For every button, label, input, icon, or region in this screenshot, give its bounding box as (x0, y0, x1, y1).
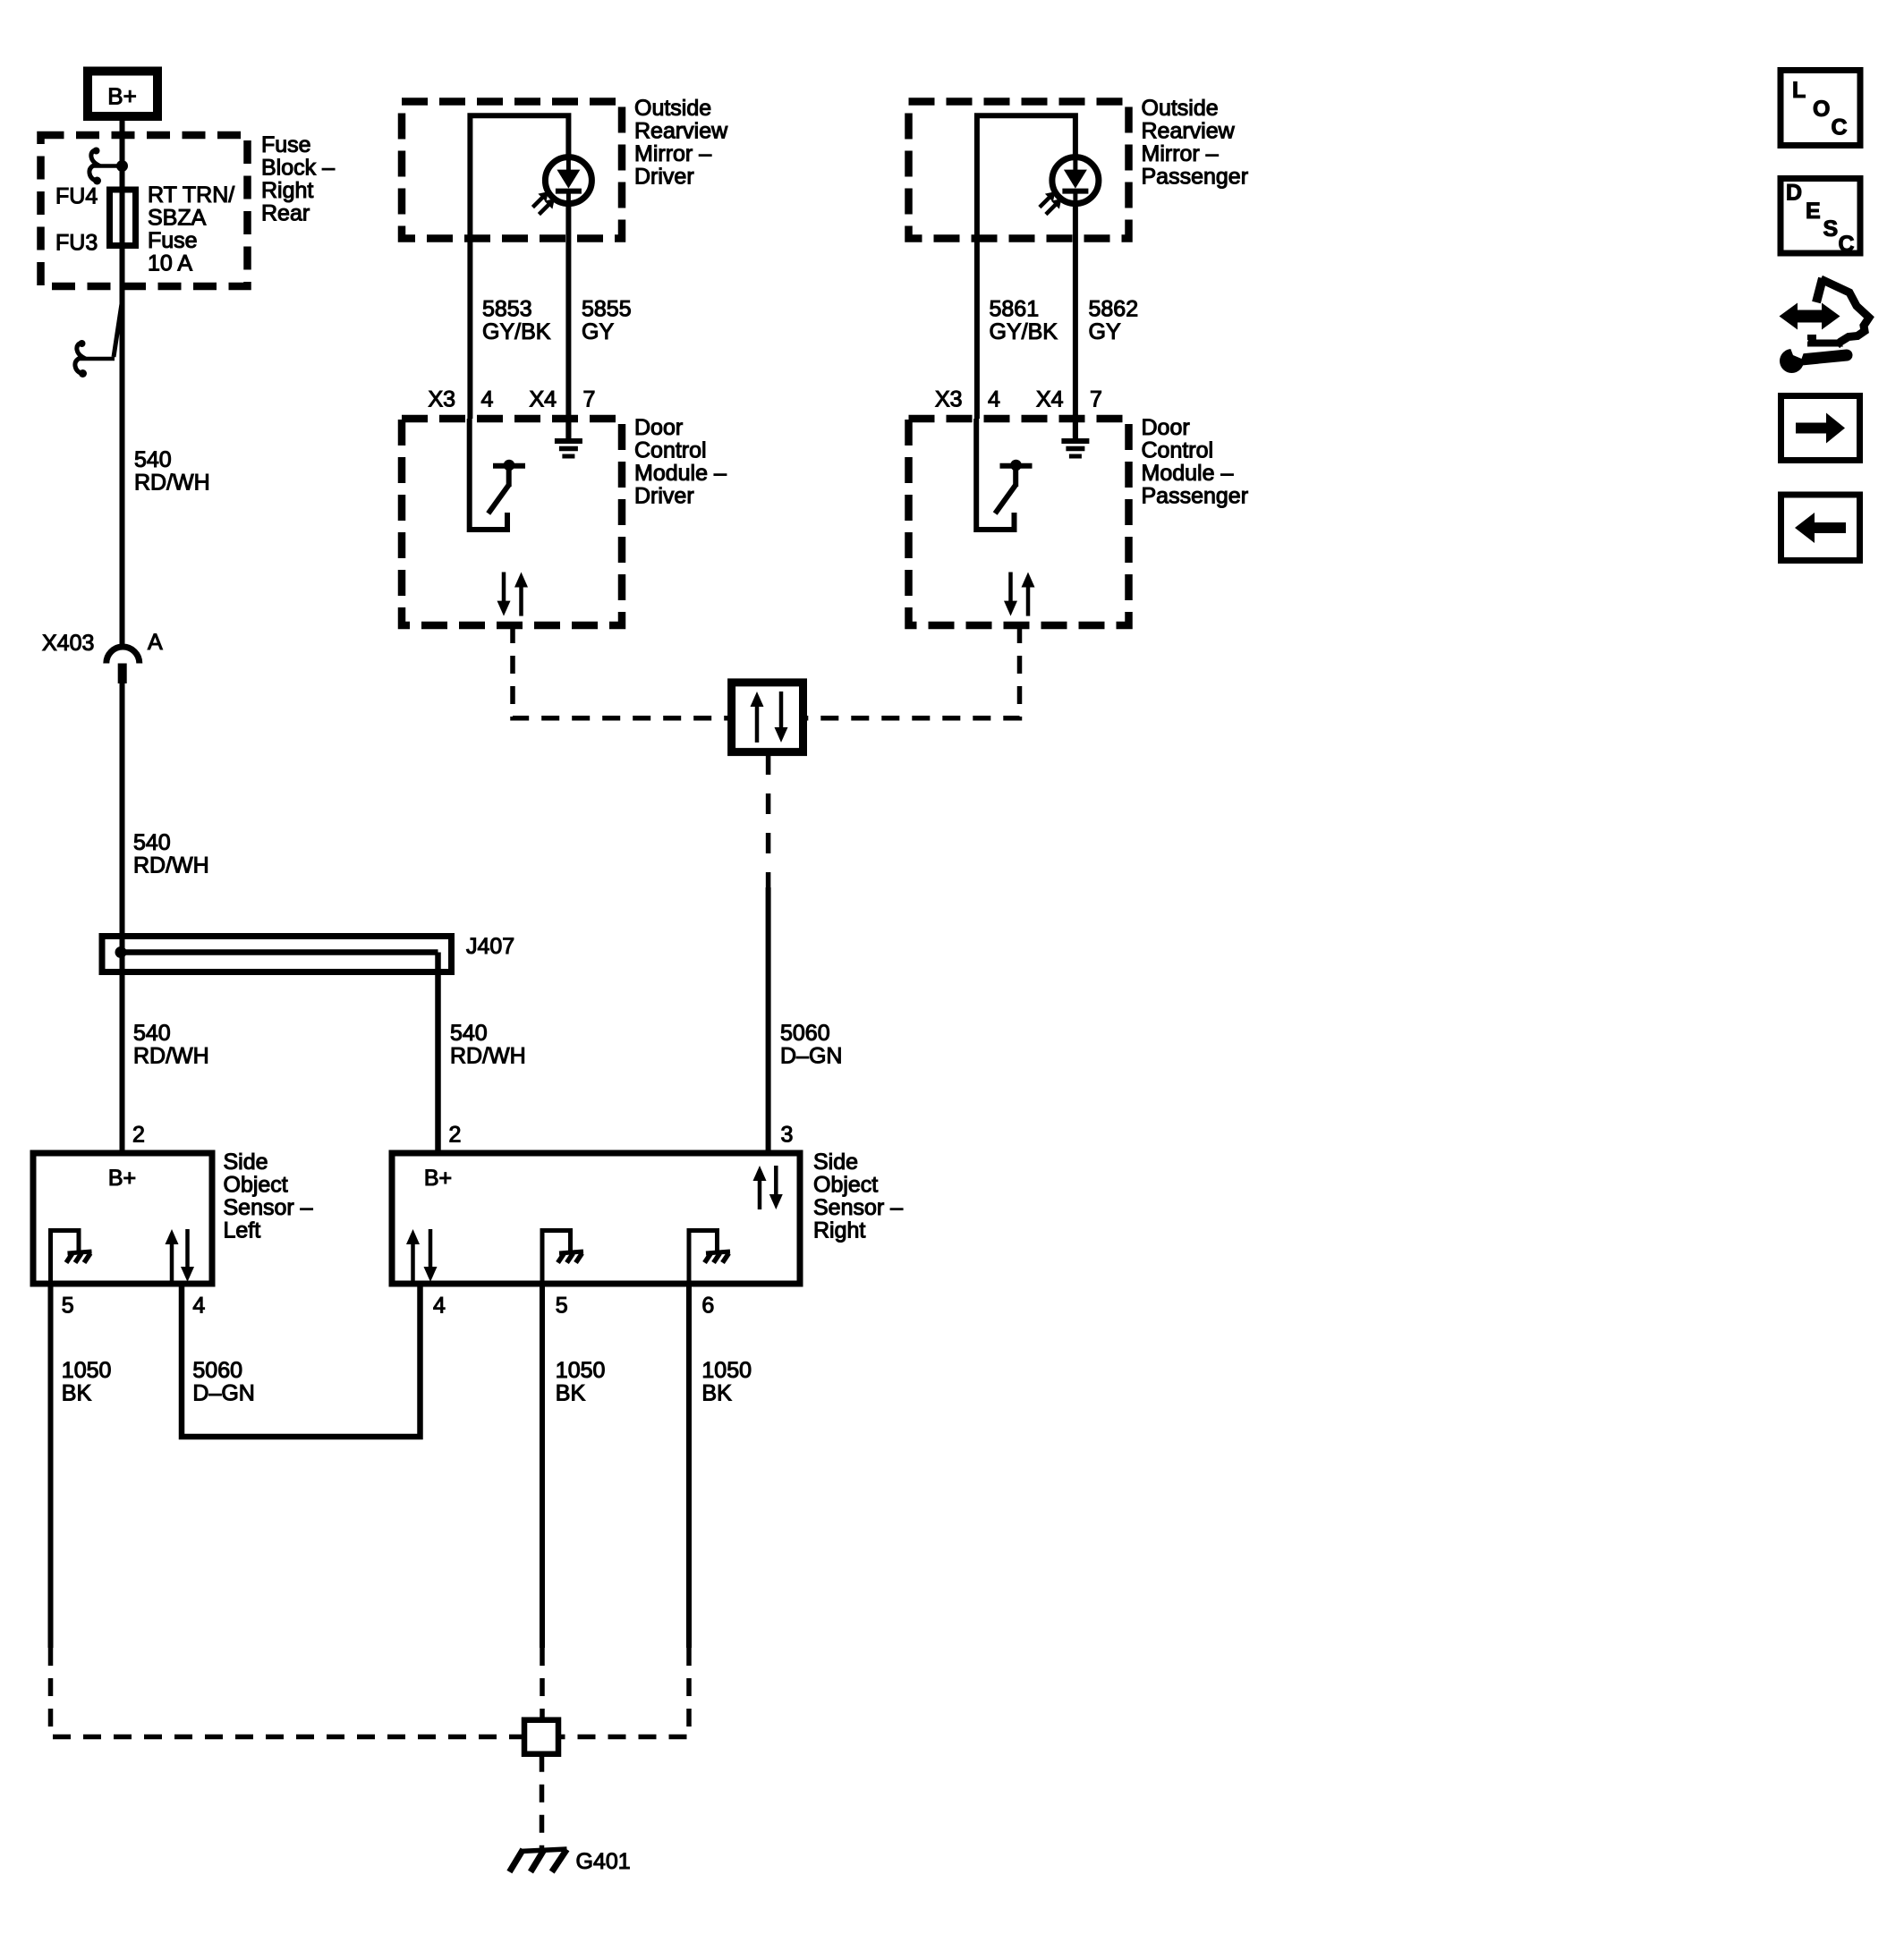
pin 6 label right (701, 1294, 714, 1319)
X403 label (42, 631, 94, 656)
svg-text:Block –: Block – (261, 156, 335, 181)
svg-text:RD/WH: RD/WH (133, 853, 209, 878)
svg-text:Rear: Rear (261, 201, 310, 226)
svg-text:1050: 1050 (62, 1358, 112, 1383)
svg-text:Sensor –: Sensor – (813, 1195, 903, 1220)
wire label 5862 GY (1089, 297, 1139, 345)
mirror passenger label (1142, 96, 1249, 190)
svg-text:Passenger: Passenger (1142, 484, 1249, 509)
outside rearview mirror driver dashed box (402, 102, 622, 239)
svg-text:Module –: Module – (1142, 461, 1234, 486)
svg-text:5862: 5862 (1089, 297, 1139, 322)
svg-text:7: 7 (583, 387, 596, 412)
svg-text:Outside: Outside (1142, 96, 1219, 121)
diagnostic pointer icon (1780, 278, 1870, 373)
svg-text:RT TRN/: RT TRN/ (148, 182, 234, 208)
wire 1050 BK left pin5 solid (48, 1284, 54, 1648)
dashed wire left pin5 to splice (51, 1648, 525, 1737)
wire J407 to right sensor pin 2 (540 RD/WH) (435, 953, 441, 1154)
mirror switch in DCM driver (470, 419, 525, 530)
lower terminal clip (75, 298, 123, 378)
up/down arrows in DCM passenger (1004, 573, 1035, 616)
svg-text:FU3: FU3 (55, 231, 98, 256)
svg-text:4: 4 (192, 1294, 205, 1319)
pin 2 label left sensor (132, 1123, 145, 1148)
svg-text:4: 4 (481, 387, 494, 412)
photocell LED passenger mirror (1040, 157, 1099, 215)
dashed wire DCM driver to mirror-motor connector (513, 625, 732, 718)
terminal A label (148, 630, 163, 655)
svg-text:7: 7 (1090, 387, 1102, 412)
earth ground in DCM driver (555, 419, 582, 456)
svg-text:RD/WH: RD/WH (134, 471, 210, 496)
svg-text:BK: BK (62, 1381, 92, 1406)
svg-text:GY/BK: GY/BK (482, 319, 551, 344)
wire LED to ground pin 7 (driver) (565, 204, 571, 438)
side object sensor left box (33, 1153, 212, 1284)
svg-text:Mirror –: Mirror – (634, 141, 711, 166)
svg-text:L: L (1792, 78, 1806, 103)
svg-text:4: 4 (433, 1294, 446, 1319)
svg-text:GY: GY (1089, 319, 1121, 344)
svg-text:Module –: Module – (634, 461, 727, 486)
svg-text:GY/BK: GY/BK (990, 319, 1058, 344)
svg-text:5060: 5060 (780, 1021, 830, 1046)
mirror switch in DCM passenger (976, 419, 1032, 530)
pin 4 label left (192, 1294, 205, 1319)
junction dot (116, 160, 128, 172)
svg-text:5060: 5060 (192, 1358, 242, 1383)
up/down arrows bottom-left in right sensor (406, 1229, 438, 1282)
svg-text:FU4: FU4 (55, 184, 98, 209)
svg-text:Door: Door (1142, 415, 1190, 440)
svg-text:4: 4 (988, 387, 1000, 412)
prev-page arrow icon (1781, 495, 1860, 561)
svg-text:Sensor –: Sensor – (224, 1195, 313, 1220)
pin 4 label right (433, 1294, 446, 1319)
svg-text:A: A (148, 630, 163, 655)
svg-text:D–GN: D–GN (780, 1044, 842, 1069)
B+ label in right sensor (424, 1166, 452, 1191)
svg-text:Mirror –: Mirror – (1142, 141, 1219, 166)
side object sensor right label (813, 1150, 903, 1243)
svg-text:6: 6 (701, 1294, 714, 1319)
G401 label (576, 1849, 631, 1874)
svg-text:O: O (1813, 97, 1830, 122)
svg-text:Driver: Driver (634, 484, 694, 509)
svg-text:SBZA: SBZA (148, 206, 207, 231)
wire label 540 RD/WH (2) (133, 830, 209, 878)
FU4 label (55, 184, 98, 209)
wire label 1050 BK (left pin5) (62, 1358, 112, 1406)
svg-text:540: 540 (133, 1021, 171, 1046)
svg-text:Rearview: Rearview (1142, 119, 1236, 144)
svg-text:1050: 1050 (701, 1358, 752, 1383)
fuse block right rear dashed box (41, 135, 248, 286)
door control module passenger label (1142, 415, 1249, 509)
FU3 label (55, 231, 98, 256)
side object sensor left label (224, 1150, 313, 1243)
svg-text:Object: Object (224, 1173, 288, 1198)
wire label 5060 D-GN (left pin4) (192, 1358, 254, 1406)
svg-text:X403: X403 (42, 631, 94, 656)
svg-text:RD/WH: RD/WH (450, 1044, 526, 1069)
svg-text:Passenger: Passenger (1142, 165, 1249, 190)
door control module driver label (634, 415, 727, 509)
mirror driver internal wire (470, 115, 568, 419)
svg-text:Fuse: Fuse (261, 132, 311, 157)
up/down arrows in DCM driver (497, 573, 529, 616)
svg-text:GY: GY (582, 319, 614, 344)
svg-text:B+: B+ (108, 1166, 136, 1191)
mirror driver label (634, 96, 728, 190)
dashed wire connector to right sensor pin 3 (766, 754, 771, 887)
wire B+ to X403 (540 RD/WH) (120, 121, 125, 647)
pin labels X3 4 X4 7 (driver) (429, 387, 596, 412)
ground splice box (524, 1720, 558, 1754)
svg-text:X4: X4 (530, 387, 557, 412)
wire label 5855 GY (582, 297, 632, 345)
fuse FU3/FU4 RT TRN/SBZA 10A (110, 190, 136, 246)
svg-text:D–GN: D–GN (192, 1381, 254, 1406)
connector X403 terminal A (106, 647, 140, 683)
svg-text:S: S (1823, 216, 1839, 242)
svg-text:BK: BK (701, 1381, 732, 1406)
dashed wire right pin5 to splice (540, 1648, 545, 1720)
svg-text:RD/WH: RD/WH (133, 1044, 209, 1069)
svg-text:540: 540 (450, 1021, 488, 1046)
wire X403 to J407 (540 RD/WH) (120, 683, 125, 1153)
svg-text:Rearview: Rearview (634, 119, 728, 144)
svg-text:G401: G401 (576, 1849, 631, 1874)
door control module driver dashed box (402, 419, 622, 625)
J407 label (466, 934, 514, 959)
mirror passenger internal wire (977, 115, 1075, 419)
photocell LED driver mirror (532, 157, 591, 215)
DESC icon (1781, 179, 1860, 258)
svg-text:Outside: Outside (634, 96, 711, 121)
svg-text:X4: X4 (1036, 387, 1064, 412)
svg-text:Left: Left (224, 1218, 261, 1243)
svg-text:J407: J407 (466, 934, 514, 959)
svg-text:C: C (1832, 115, 1848, 140)
up/down arrows in left sensor (166, 1229, 195, 1282)
svg-text:2: 2 (132, 1123, 145, 1148)
svg-text:Side: Side (813, 1150, 858, 1175)
svg-text:5853: 5853 (482, 297, 532, 322)
svg-text:Right: Right (813, 1218, 865, 1243)
wire label 1050 BK (right pin5) (556, 1358, 606, 1406)
svg-text:2: 2 (449, 1123, 462, 1148)
chassis ground in left sensor (51, 1231, 92, 1285)
svg-text:Fuse: Fuse (148, 228, 198, 253)
svg-text:BK: BK (556, 1381, 586, 1406)
pin labels X3 4 X4 7 (passenger) (935, 387, 1102, 412)
pin 5 label left (62, 1294, 74, 1319)
wire 5060 D-GN solid to pin 3 (766, 887, 771, 1153)
svg-text:5861: 5861 (990, 297, 1040, 322)
pin 2 label right sensor (449, 1123, 462, 1148)
dashed wire right pin6 to splice (558, 1648, 689, 1737)
outside rearview mirror passenger dashed box (909, 102, 1129, 239)
wire label 5060 D-GN (right) (780, 1021, 842, 1069)
svg-text:Right: Right (261, 178, 313, 203)
svg-text:B+: B+ (424, 1166, 452, 1191)
dashed wire splice to G401 (540, 1754, 545, 1848)
wire label 1050 BK (right pin6) (701, 1358, 752, 1406)
LOC icon (1781, 71, 1860, 146)
wire label 5853 GY/BK (482, 297, 551, 345)
wire 1050 BK right pin6 solid (686, 1284, 692, 1648)
svg-text:C: C (1839, 232, 1855, 257)
upper terminal clip (89, 148, 117, 185)
B+ label in left sensor (108, 1166, 136, 1191)
earth ground in DCM passenger (1061, 419, 1089, 456)
wire label 540 RD/WH (1) (134, 447, 210, 496)
B+ power symbol (88, 72, 157, 117)
wire label 540 RD/WH (4) (450, 1021, 526, 1069)
svg-text:5: 5 (62, 1294, 74, 1319)
chassis ground in right sensor (pin5) (542, 1231, 583, 1285)
svg-text:D: D (1786, 181, 1802, 206)
wire 1050 BK right pin5 solid (540, 1284, 545, 1648)
svg-text:Side: Side (224, 1150, 268, 1175)
svg-text:Control: Control (1142, 438, 1214, 463)
svg-text:Driver: Driver (634, 165, 694, 190)
wire label 540 RD/WH (3) (133, 1021, 209, 1069)
wire LED to ground pin 7 (passenger) (1073, 204, 1078, 438)
splice pack J407 (102, 937, 452, 972)
svg-text:Control: Control (634, 438, 707, 463)
wire label 5861 GY/BK (990, 297, 1058, 345)
svg-text:3: 3 (781, 1123, 794, 1148)
up/down arrows in connector box (751, 692, 788, 742)
pin 3 label right sensor (781, 1123, 794, 1148)
fuse value label (148, 182, 234, 276)
svg-text:X3: X3 (935, 387, 963, 412)
svg-text:540: 540 (133, 830, 171, 855)
dashed wire DCM passenger to mirror-motor connector (803, 625, 1020, 718)
svg-text:540: 540 (134, 447, 172, 472)
svg-text:E: E (1806, 199, 1821, 224)
door control module passenger dashed box (909, 419, 1129, 625)
svg-text:5855: 5855 (582, 297, 632, 322)
up/down arrows top-right in right sensor (753, 1166, 783, 1209)
svg-text:5: 5 (556, 1294, 568, 1319)
mirror motor connector box (732, 683, 803, 752)
svg-text:Door: Door (634, 415, 683, 440)
ground G401 (509, 1849, 566, 1872)
side object sensor right box (392, 1153, 800, 1284)
fuse block label (261, 132, 335, 226)
svg-text:B+: B+ (107, 83, 137, 110)
svg-text:X3: X3 (429, 387, 456, 412)
chassis ground in right sensor (pin6) (689, 1231, 730, 1285)
svg-text:Object: Object (813, 1173, 878, 1198)
wire 5060 D-GN pin4-left to pin4-right (182, 1284, 421, 1437)
svg-text:1050: 1050 (556, 1358, 606, 1383)
svg-text:10 A: 10 A (148, 251, 192, 276)
pin 5 label right (556, 1294, 568, 1319)
next-page arrow icon (1781, 396, 1860, 461)
